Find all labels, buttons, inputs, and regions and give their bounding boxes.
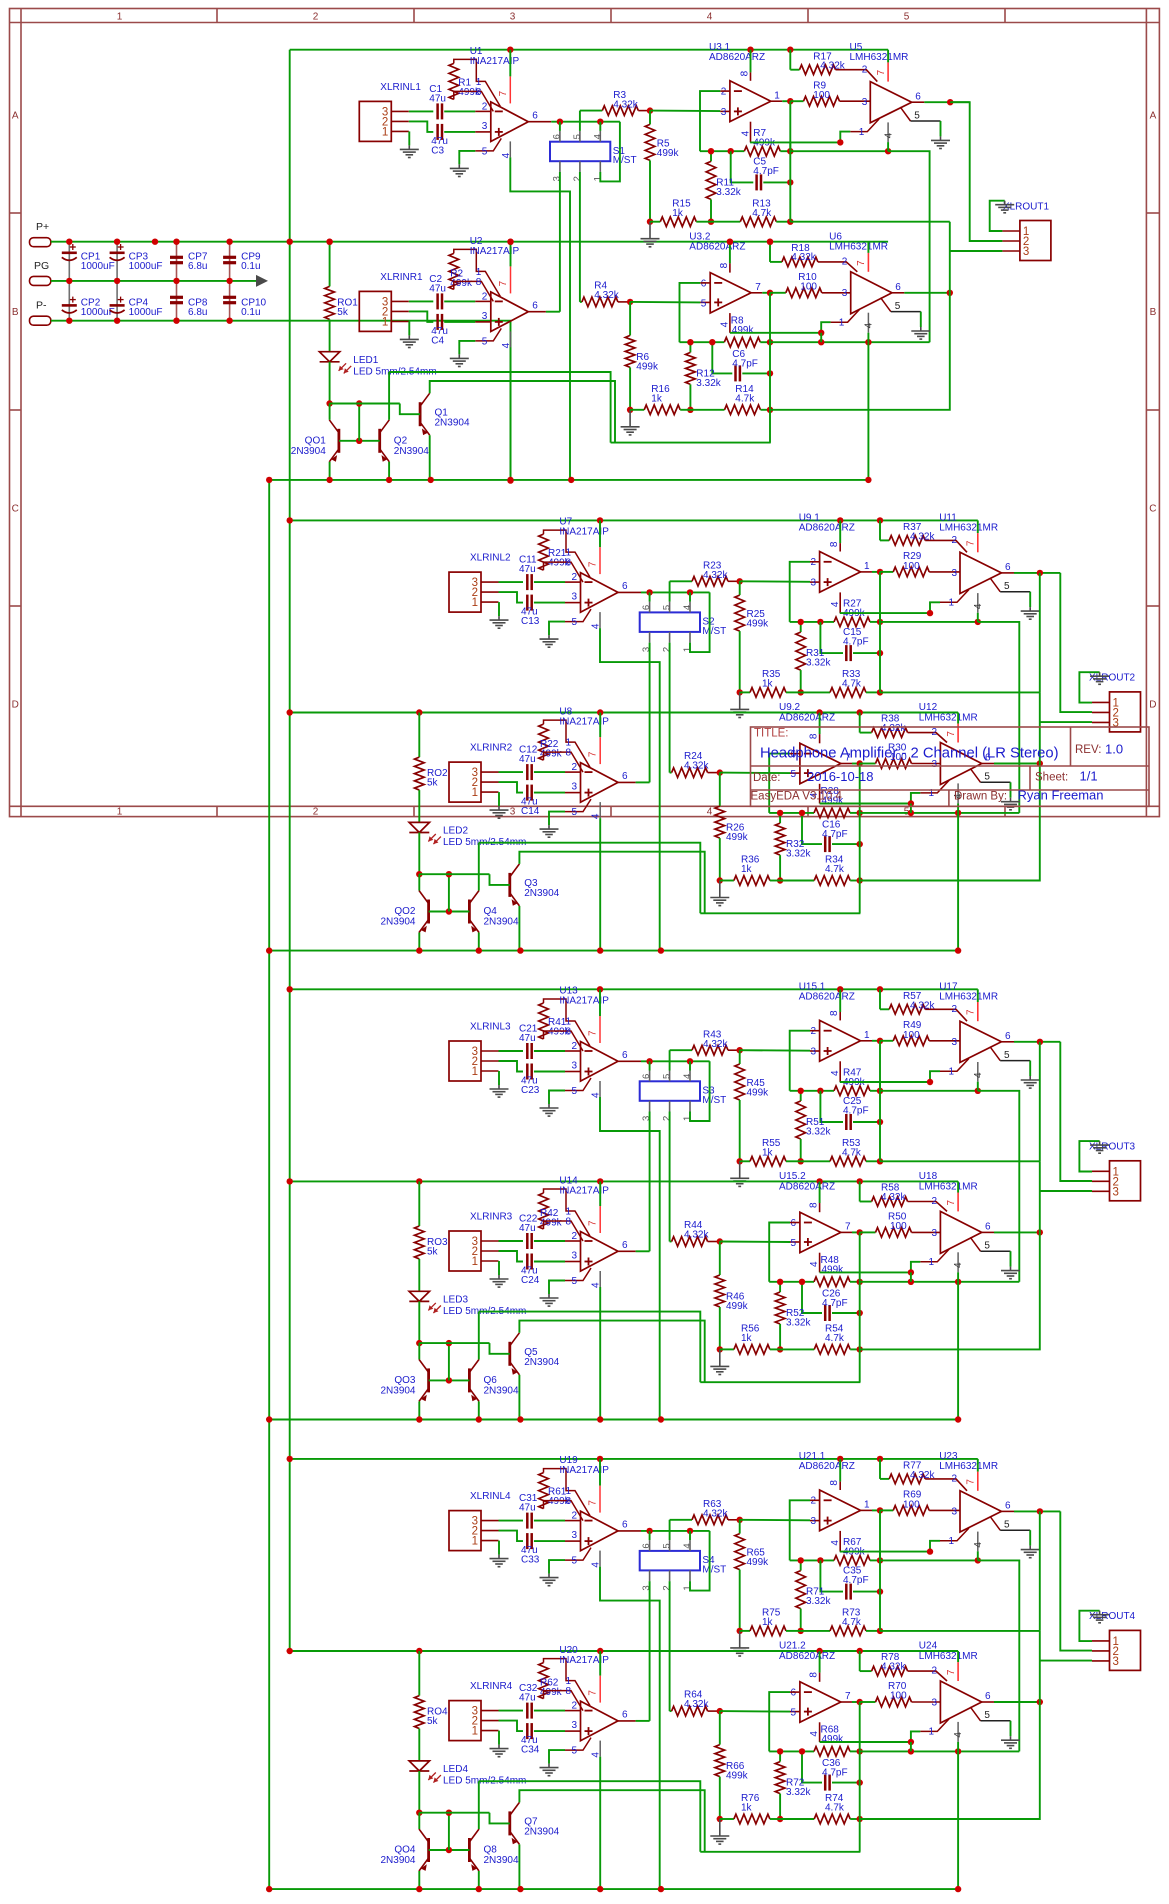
wire xyxy=(770,292,786,294)
resistor R75 xyxy=(750,1626,786,1636)
resistor R24 xyxy=(672,768,708,778)
resistor R64 xyxy=(672,1706,708,1716)
svg-text:4.7k: 4.7k xyxy=(825,1333,845,1344)
wire to pin3 xyxy=(912,1701,941,1703)
wire pin1 loop xyxy=(544,1469,591,1516)
wire V+ pin7 xyxy=(977,989,979,1002)
wire pin5 xyxy=(1000,591,1030,593)
junction xyxy=(717,1708,723,1714)
svg-text:4.32k: 4.32k xyxy=(684,1230,709,1241)
svg-text:2: 2 xyxy=(571,762,577,773)
junction xyxy=(885,148,891,154)
wire pin6 out xyxy=(618,1060,641,1062)
wire out pin1 xyxy=(1079,672,1099,702)
svg-text:4: 4 xyxy=(501,342,512,348)
wire feedback xyxy=(769,1750,814,1752)
wire cap to pin3 xyxy=(534,1071,565,1073)
junction rail xyxy=(517,947,523,953)
svg-text:5: 5 xyxy=(984,1241,990,1252)
junction xyxy=(975,1557,981,1563)
junction xyxy=(646,1528,652,1534)
wire pin7 out xyxy=(841,1231,852,1233)
svg-text:3: 3 xyxy=(951,568,957,579)
wire XLR pin2 jog xyxy=(499,1251,524,1262)
wire pin1 lead xyxy=(920,1249,949,1262)
ground xyxy=(490,1745,509,1757)
switch pin xyxy=(559,131,561,142)
junction rail xyxy=(857,1648,863,1654)
wire XLR pin2 jog xyxy=(409,121,434,132)
wire xyxy=(850,1818,860,1820)
wire to pin2 xyxy=(836,70,878,82)
junction xyxy=(287,239,293,245)
junction rail xyxy=(837,1456,843,1462)
wire S pin1 loop xyxy=(690,592,710,652)
wire pin8 xyxy=(839,1482,841,1490)
wire cap to pin3 xyxy=(534,602,565,604)
svg-text:7: 7 xyxy=(845,1691,851,1702)
wire fb extension xyxy=(880,1090,978,1092)
wire pin5 lead xyxy=(565,799,591,812)
connector PG xyxy=(30,276,51,285)
resistor R21 xyxy=(539,534,549,570)
svg-text:5: 5 xyxy=(984,772,990,783)
svg-text:4.7pF: 4.7pF xyxy=(843,1106,869,1117)
wire xyxy=(629,302,631,336)
switch pin xyxy=(689,1540,691,1551)
wire out pin3 net xyxy=(860,1161,1040,1349)
junction xyxy=(356,400,362,406)
wire out pin3 xyxy=(1040,721,1092,723)
wire pin4 gnd net xyxy=(977,1551,979,1560)
svg-text:499k: 499k xyxy=(726,832,749,843)
wire pin6 xyxy=(912,101,925,103)
svg-text:499k: 499k xyxy=(822,1734,845,1745)
wire pin5 gnd xyxy=(939,121,941,136)
wire QO collector xyxy=(418,1343,420,1359)
wire xyxy=(880,571,893,573)
svg-text:2: 2 xyxy=(662,1585,673,1590)
transistor Q4 2N3904 xyxy=(469,891,479,933)
junction rail xyxy=(287,517,293,523)
wire pin7 xyxy=(957,1193,959,1212)
resistor R48 xyxy=(814,1277,850,1287)
svg-text:2N3904: 2N3904 xyxy=(291,446,326,457)
wire xyxy=(780,1818,814,1820)
wire to bottom rail xyxy=(957,1282,959,1420)
resistor R76 xyxy=(734,1814,770,1824)
svg-text:4.32k: 4.32k xyxy=(613,99,638,110)
svg-text:3.32k: 3.32k xyxy=(786,1787,811,1798)
connector XLRINL2 xyxy=(449,572,481,612)
svg-text:5k: 5k xyxy=(337,307,349,318)
junction xyxy=(975,1088,981,1094)
wire R lead xyxy=(728,1519,740,1521)
resistor R37 xyxy=(889,536,925,546)
wire RO to LED xyxy=(329,319,331,351)
wire xyxy=(779,1324,781,1349)
svg-text:5k: 5k xyxy=(427,778,439,789)
svg-text:LMH6321MR: LMH6321MR xyxy=(829,242,888,253)
junction xyxy=(687,407,693,413)
capacitor C22 xyxy=(527,1233,531,1249)
wire xyxy=(739,581,741,595)
junction xyxy=(114,318,120,324)
wire pin7 xyxy=(957,724,959,743)
wire xyxy=(800,1609,802,1631)
wire to pin2 xyxy=(925,1009,967,1021)
svg-text:1.0: 1.0 xyxy=(1105,742,1123,757)
svg-text:5: 5 xyxy=(571,807,577,818)
wire pin6 stub xyxy=(790,753,800,755)
svg-text:2N3904: 2N3904 xyxy=(380,1855,415,1866)
wire xyxy=(860,1701,876,1703)
resistor R22 xyxy=(539,724,549,760)
wire xyxy=(761,409,771,411)
wire pin1 out xyxy=(771,100,783,102)
resistor R47 xyxy=(834,1086,870,1096)
wire XLR pin3 xyxy=(499,1240,524,1242)
wire xyxy=(650,221,660,223)
wire Q collector xyxy=(430,381,615,443)
svg-text:4.32k: 4.32k xyxy=(594,290,619,301)
ground xyxy=(911,327,930,339)
svg-text:8: 8 xyxy=(829,1480,840,1486)
junction xyxy=(717,769,723,775)
wire xyxy=(866,1160,880,1162)
svg-text:REV:: REV: xyxy=(1075,744,1101,756)
junction xyxy=(857,1699,863,1705)
wire pin8 loop xyxy=(544,752,584,772)
wire Q2 collector xyxy=(478,843,480,891)
wire to op-amp + xyxy=(650,110,720,113)
svg-text:1k: 1k xyxy=(651,393,663,404)
wire S pin5 xyxy=(579,111,581,131)
wire pin5 stub xyxy=(790,1241,800,1243)
wire xyxy=(720,880,734,882)
junction rail xyxy=(428,477,434,483)
switch pin xyxy=(649,1540,651,1551)
wire to pin3 xyxy=(929,1040,960,1042)
svg-text:47u: 47u xyxy=(519,1503,536,1514)
wire pin4 gnd net xyxy=(977,613,979,622)
wire R lead xyxy=(728,1049,740,1051)
junction xyxy=(818,330,824,336)
svg-text:INA217AIP: INA217AIP xyxy=(559,1465,609,1476)
wire xyxy=(832,843,860,845)
wire S pin1 loop xyxy=(600,122,620,182)
resistor R57 xyxy=(889,1005,925,1015)
svg-text:A: A xyxy=(12,111,19,122)
wire out pin2 xyxy=(950,102,1002,241)
junction xyxy=(66,318,72,324)
wire bias row xyxy=(419,1342,489,1344)
wire to C xyxy=(712,342,732,373)
wire XLR pin1 to ground xyxy=(408,131,410,145)
wire V+ pin7 xyxy=(867,242,869,253)
svg-text:7: 7 xyxy=(498,280,509,286)
junction xyxy=(767,407,773,413)
wire xyxy=(770,1818,780,1820)
wire pin8 supply xyxy=(839,520,841,543)
svg-text:Drawn By:: Drawn By: xyxy=(954,791,1007,803)
svg-text:2N3904: 2N3904 xyxy=(380,1386,415,1397)
wire S pin1 loop xyxy=(690,1531,710,1591)
resistor R29 xyxy=(893,567,929,577)
svg-text:2: 2 xyxy=(482,291,488,302)
junction xyxy=(799,1748,805,1754)
wire out xyxy=(546,311,560,313)
junction xyxy=(817,1088,823,1094)
junction rail xyxy=(857,709,863,715)
svg-text:4.7k: 4.7k xyxy=(825,1803,845,1814)
svg-text:2: 2 xyxy=(313,806,319,817)
wire pin5 lead xyxy=(881,298,891,312)
svg-text:4.7pF: 4.7pF xyxy=(753,166,779,177)
wire pin4 xyxy=(867,313,869,333)
wire V+ pin7 xyxy=(599,1181,601,1206)
wire fb row ext xyxy=(880,691,1040,693)
wire to bottom rail xyxy=(957,813,959,951)
wire LED down xyxy=(329,362,331,404)
resistor R55 xyxy=(750,1157,786,1167)
wire pin5 to ground xyxy=(549,622,565,636)
svg-text:3.32k: 3.32k xyxy=(806,1127,831,1138)
svg-text:6: 6 xyxy=(1005,562,1011,573)
wire out pin3 xyxy=(1040,1190,1092,1192)
junction rail xyxy=(416,1886,422,1892)
capacitor C25 xyxy=(846,1114,850,1130)
wire L out xyxy=(1014,572,1060,574)
wire xyxy=(860,1201,872,1203)
resistor R16 xyxy=(644,405,680,415)
ground xyxy=(1090,672,1109,684)
wire pin5 to ground xyxy=(549,1560,565,1574)
svg-text:5: 5 xyxy=(904,12,910,23)
junction xyxy=(647,219,653,225)
wire feedback xyxy=(790,1559,834,1561)
svg-text:8: 8 xyxy=(476,277,482,288)
wire pin7 xyxy=(599,547,601,574)
svg-text:2: 2 xyxy=(721,86,727,97)
wire XLR pin1 to ground xyxy=(498,1071,500,1085)
resistor R69 xyxy=(893,1506,929,1516)
junction xyxy=(865,339,871,345)
switch S2 M/ST xyxy=(640,612,700,632)
ground xyxy=(730,1161,749,1186)
svg-text:Q6: Q6 xyxy=(484,1375,498,1386)
wire pin8 xyxy=(839,1012,841,1020)
svg-text:7: 7 xyxy=(588,561,599,567)
wire R lead xyxy=(638,110,650,112)
wire left V+ distribution rail xyxy=(289,50,291,1651)
wire pin4 xyxy=(977,1532,979,1552)
svg-text:2: 2 xyxy=(951,535,957,546)
svg-text:3: 3 xyxy=(510,12,516,23)
wire pin5 gnd xyxy=(1029,1530,1031,1545)
wire xyxy=(779,855,781,880)
svg-text:5: 5 xyxy=(1004,1050,1010,1061)
transistor Q8 2N3904 xyxy=(469,1829,479,1871)
svg-text:2: 2 xyxy=(662,1116,673,1121)
svg-text:PG: PG xyxy=(34,260,49,272)
svg-text:3.32k: 3.32k xyxy=(716,187,741,198)
wire to pin3 xyxy=(912,1231,941,1233)
op-amp U17 LMH6321MR xyxy=(960,1021,1001,1062)
wire S pin2 down xyxy=(669,1581,671,1711)
svg-text:1: 1 xyxy=(864,1030,870,1041)
junction xyxy=(877,1119,883,1125)
wire out xyxy=(852,1701,860,1703)
svg-text:8: 8 xyxy=(809,1672,820,1678)
ground xyxy=(400,335,419,347)
junction xyxy=(857,841,863,847)
svg-text:1/1: 1/1 xyxy=(1080,769,1098,784)
wire pin5 gnd xyxy=(1010,1721,1012,1736)
svg-text:4.7k: 4.7k xyxy=(752,208,772,219)
wire pin8 xyxy=(819,734,821,743)
svg-text:2016-10-18: 2016-10-18 xyxy=(807,769,874,784)
wire pin1 fb xyxy=(820,1262,921,1273)
switch pin xyxy=(649,602,651,613)
svg-text:M/ST: M/ST xyxy=(702,626,726,637)
svg-text:5: 5 xyxy=(571,1276,577,1287)
svg-text:XLRINL4: XLRINL4 xyxy=(470,1491,511,1502)
svg-text:D: D xyxy=(12,700,19,711)
wire out xyxy=(852,1231,860,1233)
wire pin5 stub xyxy=(790,1711,800,1713)
wire pin3 stub xyxy=(565,1540,581,1542)
junction xyxy=(877,650,883,656)
junction P+ rail xyxy=(507,239,513,245)
ground xyxy=(400,145,419,157)
wire pin2 stub xyxy=(565,1520,581,1522)
wire pin5 to ground xyxy=(549,1091,565,1105)
svg-text:1: 1 xyxy=(864,561,870,572)
resistor R11 xyxy=(706,161,716,199)
junction xyxy=(955,810,961,816)
connector XLROUT3 xyxy=(1110,1161,1141,1201)
svg-text:INA217AIP: INA217AIP xyxy=(470,56,520,67)
wire pin4 xyxy=(729,313,731,333)
junction xyxy=(787,148,793,154)
wire xyxy=(680,409,690,411)
resistor R53 xyxy=(830,1157,866,1167)
wire pin3 stub xyxy=(810,1050,820,1052)
svg-text:499k: 499k xyxy=(657,148,680,159)
wire to R input xyxy=(670,580,692,582)
resistor R33 xyxy=(830,688,866,698)
wire pin4 xyxy=(839,1531,841,1552)
wire fb row ext xyxy=(790,221,950,223)
svg-text:M/ST: M/ST xyxy=(613,155,637,166)
wire to bottom rail xyxy=(867,342,869,480)
wire pin8 xyxy=(750,72,752,80)
junction xyxy=(857,1779,863,1785)
wire V+ pin7 xyxy=(957,1651,959,1662)
wire xyxy=(779,1794,781,1819)
wire out net vertical xyxy=(859,764,861,914)
resistor R46 xyxy=(715,1275,725,1307)
wire bases xyxy=(429,1379,470,1381)
junction xyxy=(687,589,693,595)
wire V+ rail channel 2 L xyxy=(290,519,978,521)
wire out xyxy=(872,1040,880,1042)
wire pin5 stub xyxy=(790,772,800,774)
junction rail xyxy=(747,47,753,53)
capacitor C32 xyxy=(527,1703,531,1719)
svg-text:AD8620ARZ: AD8620ARZ xyxy=(779,712,835,723)
svg-text:4.7pF: 4.7pF xyxy=(843,1575,869,1586)
wire to R input xyxy=(670,1519,692,1521)
junction xyxy=(908,1269,914,1275)
wire V+ to pin7 xyxy=(599,520,601,547)
wire out xyxy=(762,292,770,294)
ground xyxy=(540,825,559,837)
wire xyxy=(860,732,872,734)
junction xyxy=(737,1047,743,1053)
svg-text:C14: C14 xyxy=(521,806,540,817)
wire bottom rail channel 4 xyxy=(269,1888,960,1890)
svg-text:C: C xyxy=(12,504,19,515)
svg-text:6: 6 xyxy=(622,771,628,782)
wire S pin5 xyxy=(669,1050,671,1070)
svg-text:7: 7 xyxy=(946,1669,957,1675)
wire xyxy=(689,342,691,352)
wire P+ rail xyxy=(51,241,888,243)
wire pin4 xyxy=(599,802,601,818)
junction xyxy=(1037,1229,1043,1235)
transistor Q6 2N3904 xyxy=(469,1359,479,1401)
wire rail to Rbias xyxy=(769,242,771,262)
wire xyxy=(801,1160,830,1162)
junction xyxy=(356,438,362,444)
PG ground arrow xyxy=(256,275,268,287)
resistor R73 xyxy=(830,1626,866,1636)
capacitor CP1 polarized xyxy=(62,252,77,255)
ground xyxy=(1001,1267,1020,1279)
junction xyxy=(877,619,883,625)
junction rail xyxy=(266,477,272,483)
wire cap to pin2 xyxy=(444,110,475,112)
ground xyxy=(450,354,469,366)
wire pin8 supply xyxy=(819,1181,821,1203)
wire to op-amp + xyxy=(740,1519,810,1522)
svg-text:INA217AIP: INA217AIP xyxy=(559,527,609,538)
op-amp U23 LMH6321MR xyxy=(960,1491,1001,1532)
connector XLRINL4 xyxy=(449,1511,481,1551)
svg-text:C34: C34 xyxy=(521,1745,540,1756)
wire xyxy=(776,221,790,223)
wire xyxy=(866,1630,880,1632)
svg-text:M/ST: M/ST xyxy=(702,1095,726,1106)
wire xyxy=(649,111,651,125)
wire pin5 lead xyxy=(565,1548,591,1561)
junction rail xyxy=(597,1648,603,1654)
LED LED1 xyxy=(319,352,339,362)
resistor R4 xyxy=(582,297,618,307)
switch S1 M/ST xyxy=(550,142,610,162)
svg-text:5: 5 xyxy=(571,1086,577,1097)
wire to Q base xyxy=(490,874,510,885)
svg-text:3: 3 xyxy=(571,1720,577,1731)
capacitor CP4 polarized xyxy=(110,304,125,307)
op-amp U2 INA217AIP xyxy=(491,292,529,332)
resistor R45 xyxy=(735,1064,745,1100)
svg-text:6: 6 xyxy=(985,1222,991,1233)
svg-text:C23: C23 xyxy=(521,1085,540,1096)
wire pin4 xyxy=(957,1722,959,1742)
